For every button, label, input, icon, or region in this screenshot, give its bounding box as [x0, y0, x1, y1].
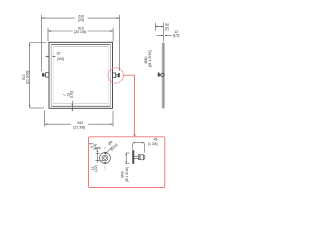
- svg-text:[24]: [24]: [78, 18, 84, 22]
- svg-text:[1/4]: [1/4]: [93, 144, 97, 150]
- svg-text:[20 3/16]: [20 3/16]: [26, 71, 30, 84]
- detail side view plate bar: [133, 151, 135, 164]
- svg-text:[2]: [2]: [165, 27, 169, 31]
- plate outer rect: [49, 42, 113, 108]
- detail dim Ø40 vertical: [125, 153, 129, 164]
- side view plate lines: [162, 43, 165, 109]
- svg-text:[21 3/8]: [21 3/8]: [74, 125, 85, 129]
- dim 510: [48, 28, 113, 42]
- dim 542 bottom: [45, 111, 114, 127]
- svg-text:[3/4]: [3/4]: [57, 57, 64, 61]
- svg-text:[1/2]: [1/2]: [94, 165, 98, 171]
- dim 513 left: [30, 43, 46, 109]
- detail side view stud: [134, 155, 145, 160]
- plate faint recess rect: [53, 47, 108, 104]
- dim 12 [1/2] side thickness: [157, 35, 172, 37]
- svg-text:[Ø 1 9/16]: [Ø 1 9/16]: [125, 167, 129, 182]
- svg-text:Ø40: Ø40: [144, 57, 148, 64]
- svg-text:[20 1/8]: [20 1/8]: [74, 30, 85, 34]
- detail front view circles: [100, 153, 111, 164]
- left stud side protrusion: [43, 73, 49, 77]
- detail dim 45 [1 3/4]: [133, 143, 145, 153]
- svg-text:[1 3/4]: [1 3/4]: [148, 142, 157, 146]
- svg-text:45: 45: [154, 137, 158, 141]
- dim 610 top: [42, 15, 120, 72]
- dim 20 [3/4] top wall: [45, 55, 55, 57]
- svg-text:[1/2]: [1/2]: [173, 33, 180, 37]
- svg-text:[Ø 1 9/16]: [Ø 1 9/16]: [148, 50, 152, 66]
- svg-text:[1/2]: [1/2]: [70, 91, 74, 98]
- svg-text:Ø40: Ø40: [121, 171, 125, 177]
- plate inner rect: [51, 45, 110, 107]
- red detail callout circle: [108, 68, 123, 83]
- red detail box: [89, 137, 165, 188]
- detail centerline: [104, 147, 106, 172]
- svg-text:20: 20: [57, 52, 61, 56]
- red leader to detail box: [123, 75, 134, 136]
- svg-text:542: 542: [77, 121, 83, 125]
- detail diagonal leader Ø8: [105, 147, 112, 154]
- side view stud: [158, 73, 164, 77]
- right stud side protrusion: [113, 73, 120, 78]
- dim 50 [2]: [155, 23, 163, 42]
- detail vertical dim strokes: [89, 144, 103, 163]
